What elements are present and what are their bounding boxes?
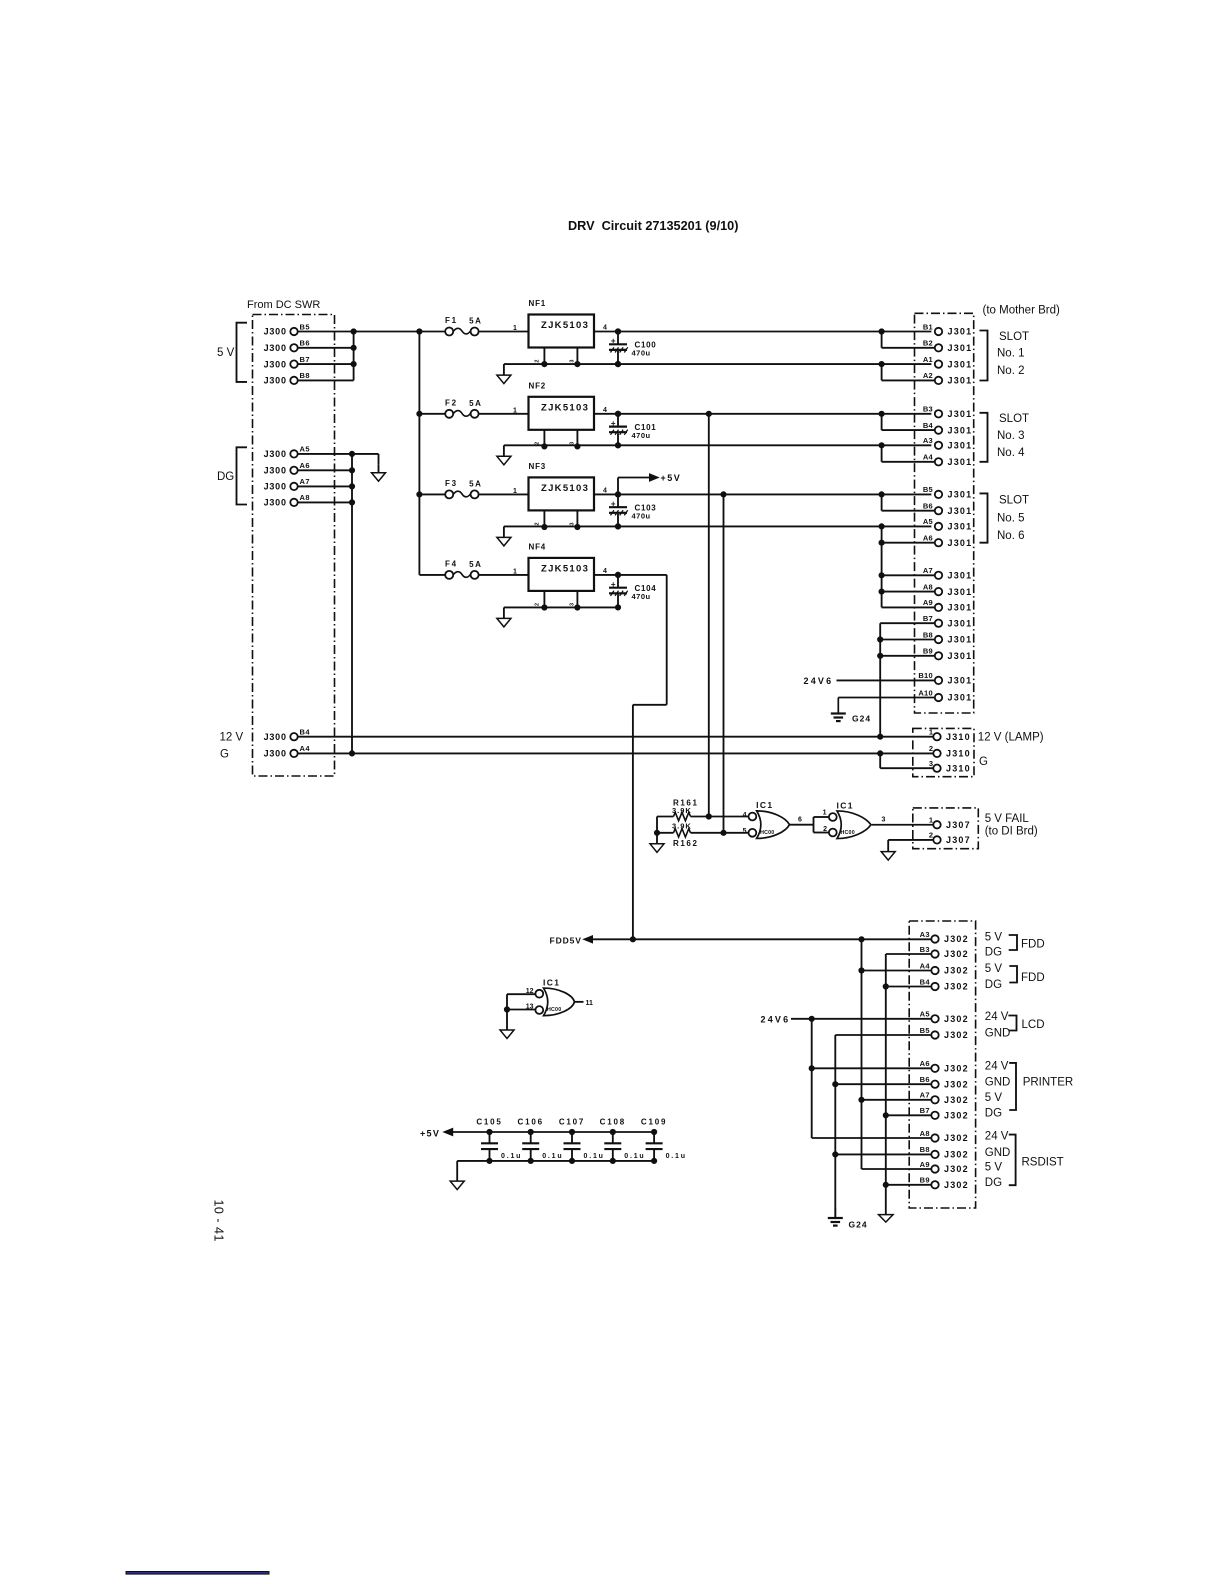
svg-text:J300: J300 <box>264 732 287 742</box>
svg-text:J307: J307 <box>946 820 971 830</box>
connector J310 pin 1 <box>929 728 971 742</box>
connector J302 pin B5 <box>920 1026 969 1040</box>
connector J301 pin B8 <box>923 630 973 644</box>
svg-text:A9: A9 <box>920 1160 930 1169</box>
bracket PRINTER (A6..B7) <box>1009 1063 1073 1110</box>
svg-text:470u: 470u <box>632 431 651 440</box>
svg-text:A5: A5 <box>920 1010 930 1019</box>
svg-text:A2: A2 <box>923 371 933 380</box>
svg-text:10 - 41: 10 - 41 <box>212 1199 226 1241</box>
wire NF4 output jog down to FDD5V node <box>594 572 667 939</box>
svg-text:J301: J301 <box>948 359 973 369</box>
svg-text:GND: GND <box>985 1077 1011 1089</box>
svg-text:A7: A7 <box>923 566 933 575</box>
connector J301 pin A5 <box>923 517 973 531</box>
wire gate2 output 3 to J307 pin 1 <box>872 817 933 825</box>
svg-text:ZJK5103: ZJK5103 <box>541 564 589 575</box>
wire 12V line J300 B4 to J310 pin 1 <box>298 734 933 739</box>
svg-text:3: 3 <box>570 603 576 606</box>
noise filter NF3 ZJK5103 <box>513 462 607 530</box>
label (to Mother Brd) <box>983 305 1060 317</box>
connector J301 pin B2 <box>923 339 973 353</box>
svg-text:J301: J301 <box>948 409 973 419</box>
svg-text:IC1: IC1 <box>543 977 560 987</box>
svg-text:J310: J310 <box>946 732 971 742</box>
svg-text:J301: J301 <box>948 587 973 597</box>
bracket SLOT No.1 No.2 <box>980 331 1030 381</box>
svg-text:J301: J301 <box>948 457 973 467</box>
connector J301 pin A4 <box>923 453 973 467</box>
wire 5V feed vertical (A4,A7,A9) <box>859 939 931 1169</box>
ground triangle below NF1 <box>497 364 511 384</box>
title: DRV Circuit 27135201 (9/10) <box>568 219 738 233</box>
svg-text:0.1u: 0.1u <box>624 1153 645 1160</box>
wire NF1 ground line to J301 A1 <box>504 362 932 367</box>
svg-text:J302: J302 <box>944 1150 969 1160</box>
wire bus to F3 <box>419 493 445 495</box>
wire B8 stub <box>298 379 354 381</box>
svg-text:A3: A3 <box>920 930 930 939</box>
connector J301 pin B3 <box>923 405 973 419</box>
svg-text:J300: J300 <box>264 482 287 492</box>
connector J307 pin 1 <box>929 816 971 830</box>
svg-text:1: 1 <box>513 488 517 495</box>
J302 pin function labels column <box>985 931 1011 1189</box>
svg-text:1: 1 <box>823 810 827 817</box>
connector J302 pin A5 <box>920 1010 969 1024</box>
net label 12 V (left) <box>220 732 244 744</box>
wire B7 stub <box>298 362 356 367</box>
connector J302 pin B8 <box>920 1145 969 1159</box>
capacitor C105 0.1u <box>476 1117 522 1163</box>
svg-text:J300: J300 <box>264 749 287 759</box>
svg-text:3: 3 <box>882 817 886 824</box>
svg-text:A7: A7 <box>300 477 310 486</box>
ground triangle below R162 <box>650 833 664 853</box>
svg-text:A9: A9 <box>923 598 933 607</box>
svg-text:2: 2 <box>535 603 541 606</box>
svg-text:B6: B6 <box>300 339 310 348</box>
svg-text:2: 2 <box>823 826 827 833</box>
connector J301 pin B9 <box>923 647 973 661</box>
svg-text:G24: G24 <box>849 1220 868 1230</box>
svg-text:B6: B6 <box>923 502 933 511</box>
net label DG bracket (left) <box>217 447 247 504</box>
svg-text:HC00: HC00 <box>760 830 774 836</box>
svg-text:J301: J301 <box>948 603 973 613</box>
ground triangle below IC1 gate3 <box>500 1030 514 1039</box>
wire F4 to NF input pin 1 <box>479 574 529 576</box>
svg-text:B9: B9 <box>923 647 933 656</box>
svg-text:DG: DG <box>985 1177 1002 1189</box>
svg-text:F2: F2 <box>445 399 458 408</box>
svg-text:C106: C106 <box>518 1117 544 1126</box>
connector J310 pin 3 <box>929 759 971 773</box>
wire gate3 output 11 stub <box>575 1000 594 1007</box>
svg-text:NF3: NF3 <box>529 462 547 471</box>
wire B5-B6 feed <box>882 494 935 510</box>
svg-text:J302: J302 <box>944 1030 969 1040</box>
capacitor C107 0.1u <box>559 1117 605 1163</box>
svg-text:DG: DG <box>985 979 1002 991</box>
svg-text:0.1u: 0.1u <box>542 1153 563 1160</box>
connector J301 dashed box <box>915 313 974 713</box>
svg-text:B8: B8 <box>920 1145 930 1154</box>
ground triangle at J307 pin 2 <box>881 852 895 861</box>
net +5V off-page arrow (from NF3 output) <box>618 473 681 494</box>
svg-text:(to DI Brd): (to DI Brd) <box>985 826 1038 838</box>
ground G24 earth symbol (below J302) <box>828 1208 868 1230</box>
connector J302 pin A4 <box>920 961 969 975</box>
svg-text:3: 3 <box>570 522 576 525</box>
svg-text:4: 4 <box>603 568 607 575</box>
svg-text:J300: J300 <box>264 449 287 459</box>
svg-text:J301: J301 <box>948 425 973 435</box>
svg-text:2: 2 <box>929 744 933 753</box>
svg-text:470u: 470u <box>632 349 651 358</box>
resistor R162 3.9K <box>657 821 748 848</box>
svg-text:J300: J300 <box>264 327 287 337</box>
svg-text:B5: B5 <box>920 1026 930 1035</box>
wire decoupling ground rail <box>457 1161 654 1181</box>
svg-text:B7: B7 <box>300 355 310 364</box>
svg-text:470u: 470u <box>632 592 651 601</box>
svg-text:+5V: +5V <box>420 1129 440 1139</box>
wire FDD5V line to J302 A3 <box>593 937 932 942</box>
svg-text:A8: A8 <box>923 582 933 591</box>
connector J300 pin B5 <box>264 322 310 336</box>
svg-text:1: 1 <box>929 728 933 737</box>
svg-text:J302: J302 <box>944 1095 969 1105</box>
wire A5 to DG ground <box>298 451 378 464</box>
svg-text:J302: J302 <box>944 966 969 976</box>
wire NF4 ground line to C104 <box>504 606 618 608</box>
svg-text:+: + <box>611 580 616 589</box>
svg-text:F4: F4 <box>445 560 458 569</box>
svg-text:B4: B4 <box>920 977 931 986</box>
wire bus to F2 <box>419 413 445 415</box>
svg-text:J301: J301 <box>948 571 973 581</box>
bracket SLOT No.5 No.6 <box>980 493 1030 542</box>
svg-text:1: 1 <box>513 325 517 332</box>
svg-text:1: 1 <box>513 407 517 414</box>
svg-text:J302: J302 <box>944 1014 969 1024</box>
svg-text:SLOT: SLOT <box>999 495 1029 507</box>
label 5 V FAIL <box>985 813 1030 825</box>
fuse F2 5A <box>445 399 483 418</box>
svg-text:6: 6 <box>798 817 802 824</box>
bracket FDD (A3/B3) <box>1009 935 1045 950</box>
wire A3-A4 feed <box>882 445 935 462</box>
svg-text:SLOT: SLOT <box>999 331 1029 343</box>
svg-text:A4: A4 <box>923 453 934 462</box>
svg-text:+: + <box>611 419 616 428</box>
ground triangle DG (below J302) <box>879 1215 894 1223</box>
svg-text:NF4: NF4 <box>529 542 547 551</box>
wire DG feed vertical (B3,B4,B7,B9) to ground <box>883 954 931 1215</box>
svg-text:B5: B5 <box>300 322 310 331</box>
connector J302 pin B4 <box>920 977 969 991</box>
svg-text:A8: A8 <box>920 1129 930 1138</box>
svg-text:A6: A6 <box>300 461 310 470</box>
svg-text:B5: B5 <box>923 485 933 494</box>
capacitor C109 0.1u <box>641 1117 687 1163</box>
connector J301 pin A3 <box>923 436 973 450</box>
connector J301 pin A9 <box>923 598 973 612</box>
bracket RSDIST (A8..B9) <box>1009 1135 1064 1186</box>
wire A1-A2 feed <box>882 364 935 380</box>
wire 5V tie vertical <box>353 332 355 381</box>
wire NF3 ground line to J301 A5 <box>504 524 932 529</box>
svg-text:C108: C108 <box>600 1117 626 1126</box>
svg-text:FDD: FDD <box>1021 938 1045 950</box>
svg-text:J300: J300 <box>264 498 287 508</box>
svg-text:G24: G24 <box>852 713 871 723</box>
connector J301 pin B5 <box>923 485 973 499</box>
svg-text:B4: B4 <box>300 728 311 737</box>
svg-text:1: 1 <box>513 568 517 575</box>
connector J301 pin A2 <box>923 371 973 385</box>
wire 24V6 to B10 <box>837 679 935 681</box>
wire B5 row to fuse F1 with junctions <box>298 329 445 334</box>
svg-text:ZJK5103: ZJK5103 <box>541 483 589 494</box>
svg-text:5A: 5A <box>469 317 482 326</box>
svg-text:J302: J302 <box>944 1180 969 1190</box>
resistor R161 3.9K <box>657 799 748 821</box>
connector J302 pin B9 <box>920 1176 969 1190</box>
svg-text:5 V: 5 V <box>985 931 1003 943</box>
svg-text:24V6: 24V6 <box>761 1015 791 1025</box>
svg-text:LCD: LCD <box>1022 1019 1045 1031</box>
wire DG vertical down to G line <box>349 454 354 756</box>
svg-text:A4: A4 <box>300 744 311 753</box>
svg-text:5 V: 5 V <box>985 963 1003 975</box>
connector J302 pin B3 <box>920 945 969 959</box>
noise filter NF2 ZJK5103 <box>513 381 607 449</box>
svg-text:A6: A6 <box>920 1059 930 1068</box>
svg-text:+: + <box>611 337 616 346</box>
svg-text:J301: J301 <box>948 327 973 337</box>
connector J301 pin A10 <box>918 688 972 702</box>
svg-text:HC00: HC00 <box>841 830 855 836</box>
op-gate IC1 (pins 12,13 -> 11) HC00, inputs grounded <box>504 977 574 1015</box>
svg-text:24 V: 24 V <box>985 1011 1009 1023</box>
svg-text:G: G <box>979 756 988 768</box>
wire F1 to NF input pin 1 <box>479 331 529 333</box>
svg-text:SLOT: SLOT <box>999 413 1029 425</box>
wire NF3 output to J301 B5 <box>594 492 931 497</box>
svg-text:5 V: 5 V <box>985 1161 1003 1173</box>
svg-text:J301: J301 <box>948 522 973 532</box>
svg-text:DG: DG <box>217 471 234 483</box>
svg-text:J301: J301 <box>948 693 973 703</box>
svg-text:J310: J310 <box>946 763 971 773</box>
svg-text:ZJK5103: ZJK5103 <box>541 320 589 331</box>
connector J300 pin B8 <box>264 371 310 385</box>
svg-text:5A: 5A <box>469 560 482 569</box>
net label 24V6 (to J302) <box>761 1015 791 1025</box>
capacitor C104 470u <box>609 572 656 610</box>
svg-text:ZJK5103: ZJK5103 <box>541 402 589 413</box>
svg-text:No. 4: No. 4 <box>997 447 1025 459</box>
wire +5V rail <box>453 1131 654 1133</box>
wire DG feed A5-A9 vertical <box>879 526 934 607</box>
net FDD5V arrow label <box>550 935 593 945</box>
net label 24V6 (to J301 B10) <box>804 676 834 686</box>
connector J301 pin B4 <box>923 421 973 435</box>
wire 24V feed vertical (A5,A6,A8) <box>809 1019 931 1138</box>
svg-text:C109: C109 <box>641 1117 667 1126</box>
svg-text:GND: GND <box>985 1147 1011 1159</box>
svg-text:DRV Circuit 27135201 (9/10): DRV Circuit 27135201 (9/10) <box>568 219 738 233</box>
wire 24V6 to J302 A5 <box>791 1016 931 1021</box>
connector J300 pin A6 <box>264 461 310 475</box>
connector J301 pin B7 <box>923 614 973 628</box>
svg-text:0.1u: 0.1u <box>501 1153 522 1160</box>
svg-text:B3: B3 <box>923 405 933 414</box>
svg-text:2: 2 <box>535 360 541 363</box>
svg-text:J300: J300 <box>264 376 287 386</box>
svg-text:RSDIST: RSDIST <box>1022 1157 1064 1169</box>
svg-text:J310: J310 <box>946 749 971 759</box>
svg-text:No. 5: No. 5 <box>997 513 1025 525</box>
wire A10 to ground G24 <box>838 697 934 699</box>
wire J307 pin 2 to ground <box>888 840 933 852</box>
connector J300 pin B4 <box>264 728 311 742</box>
svg-text:12 V: 12 V <box>220 732 244 744</box>
svg-text:5: 5 <box>743 828 747 835</box>
connector J300 pin A4 <box>264 744 311 758</box>
capacitor C101 470u <box>609 411 656 448</box>
svg-text:24V6: 24V6 <box>804 676 834 686</box>
ground triangle below NF2 <box>497 445 511 465</box>
connector J301 pin A7 <box>923 566 973 580</box>
svg-text:J300: J300 <box>264 359 287 369</box>
wire NF3 output sense vertical to R162 line <box>723 494 725 832</box>
connector J310 dashed box <box>913 728 974 776</box>
wire F3 to NF input pin 1 <box>479 493 529 495</box>
svg-text:B7: B7 <box>920 1106 930 1115</box>
capacitor C106 0.1u <box>518 1117 564 1163</box>
connector J302 pin A6 <box>920 1059 969 1073</box>
svg-text:A1: A1 <box>923 355 933 364</box>
svg-text:J301: J301 <box>948 651 973 661</box>
connector J300 (From DC SWR) dashed box <box>247 299 335 776</box>
label G (J310) <box>979 756 988 768</box>
op-gate IC1 (pins 1,2 -> 3) HC00 <box>823 800 871 838</box>
connector J302 pin A3 <box>920 930 969 944</box>
svg-text:No. 6: No. 6 <box>997 530 1025 542</box>
svg-text:4: 4 <box>603 325 607 332</box>
ground triangle below NF3 <box>497 526 511 546</box>
label (to DI Brd) <box>985 826 1038 838</box>
fuse F3 5A <box>445 479 483 498</box>
svg-text:5 V: 5 V <box>217 347 235 359</box>
noise filter NF1 ZJK5103 <box>513 299 607 367</box>
svg-text:J307: J307 <box>946 835 971 845</box>
svg-text:0.1u: 0.1u <box>666 1153 687 1160</box>
wire A7 stub <box>298 484 355 489</box>
svg-text:5A: 5A <box>469 479 482 488</box>
svg-text:J302: J302 <box>944 1064 969 1074</box>
svg-text:24 V: 24 V <box>985 1130 1009 1142</box>
svg-text:J301: J301 <box>948 635 973 645</box>
svg-text:5 V: 5 V <box>985 1092 1003 1104</box>
wire B3-B4 feed <box>882 414 935 430</box>
wire GND feed vertical (B5,B6,B8) to G24 <box>833 1035 931 1218</box>
connector J300 pin B7 <box>264 355 310 369</box>
svg-text:B8: B8 <box>923 630 933 639</box>
wire NF1 output to J301 B1 <box>594 329 931 334</box>
svg-text:J301: J301 <box>948 538 973 548</box>
capacitor C108 0.1u <box>600 1117 646 1163</box>
wire NF2 output sense vertical to R161 line <box>708 414 710 817</box>
svg-text:4: 4 <box>603 407 607 414</box>
svg-text:A4: A4 <box>920 961 931 970</box>
label 12 V (LAMP) <box>978 732 1044 744</box>
capacitor C103 470u <box>609 492 656 529</box>
op-gate IC1 (pins 4,5 -> 6) HC00 <box>743 800 790 838</box>
svg-text:J302: J302 <box>944 1111 969 1121</box>
svg-text:DG: DG <box>985 946 1002 958</box>
svg-text:B6: B6 <box>920 1075 930 1084</box>
connector J307 dashed box <box>913 808 979 849</box>
svg-text:11: 11 <box>586 1000 594 1007</box>
svg-text:A6: A6 <box>923 534 933 543</box>
wire NF2 ground line to J301 A3 <box>504 443 932 448</box>
svg-text:B7: B7 <box>923 614 933 623</box>
ground triangle below NF4 <box>497 607 511 627</box>
connector J302 pin B7 <box>920 1106 969 1120</box>
connector J307 pin 2 <box>929 831 971 845</box>
ground triangle below C105 rail <box>450 1181 464 1190</box>
svg-text:B2: B2 <box>923 339 933 348</box>
svg-text:IC1: IC1 <box>837 800 854 810</box>
connector J302 pin A7 <box>920 1091 969 1105</box>
svg-text:IC1: IC1 <box>756 800 773 810</box>
fuse F1 5A <box>445 316 483 335</box>
connector J300 pin B6 <box>264 339 310 353</box>
svg-text:NF2: NF2 <box>529 381 547 390</box>
wire G line J300 A4 to J310 pin 2 <box>298 751 933 756</box>
svg-text:A3: A3 <box>923 436 933 445</box>
svg-text:J301: J301 <box>948 343 973 353</box>
svg-text:C105: C105 <box>476 1117 502 1126</box>
connector J300 pin A7 <box>264 477 310 491</box>
svg-text:FDD5V: FDD5V <box>550 935 582 945</box>
svg-text:No. 3: No. 3 <box>997 430 1025 442</box>
svg-text:HC00: HC00 <box>547 1007 561 1013</box>
svg-text:4: 4 <box>603 487 607 494</box>
svg-text:(to Mother Brd): (to Mother Brd) <box>983 305 1060 317</box>
connector J301 pin B1 <box>923 322 973 336</box>
ground G24 earth symbol (J301 A10) <box>831 698 871 724</box>
ground (DG) triangle near J300 <box>372 464 386 481</box>
svg-text:J302: J302 <box>944 1079 969 1089</box>
svg-text:From DC SWR: From DC SWR <box>247 299 320 311</box>
wire G branch to J310 pin 3 <box>880 753 933 768</box>
svg-text:J301: J301 <box>948 506 973 516</box>
wire A6 stub <box>298 468 355 473</box>
svg-text:A5: A5 <box>300 445 310 454</box>
svg-text:A5: A5 <box>923 517 933 526</box>
svg-text:A10: A10 <box>918 688 933 697</box>
wire 12V feed B7-B9 vertical <box>878 623 935 737</box>
svg-text:+5V: +5V <box>661 473 682 483</box>
net label G (left) <box>220 749 229 761</box>
svg-text:GND: GND <box>985 1027 1011 1039</box>
wire B6 stub <box>298 345 356 350</box>
